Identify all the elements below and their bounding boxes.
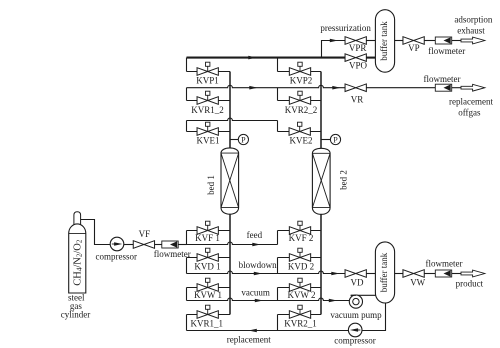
vacuum flow arrow xyxy=(255,299,263,303)
svg-text:buffer tank: buffer tank xyxy=(379,21,389,61)
KVW1 branch wire xyxy=(187,287,231,289)
valve KVP1 xyxy=(197,62,218,75)
svg-text:replacement: replacement xyxy=(227,335,271,345)
valve VPR xyxy=(345,37,366,45)
svg-text:KVR1_1: KVR1_1 xyxy=(191,318,224,328)
steel gas cylinder xyxy=(69,212,86,293)
valve KVW2 xyxy=(289,278,310,291)
valve KVP2 xyxy=(289,62,310,75)
replacement flow arrow (left) xyxy=(249,329,257,333)
offgas flowmeter xyxy=(435,84,451,91)
svg-text:pressurization: pressurization xyxy=(320,23,371,33)
svg-text:flowmeter: flowmeter xyxy=(424,74,461,84)
wire VD valve to product buffer tank xyxy=(366,273,375,275)
svg-text:bed 1: bed 1 xyxy=(206,175,216,195)
svg-text:KVR2_1: KVR2_1 xyxy=(284,318,317,328)
svg-text:KVF 2: KVF 2 xyxy=(289,233,314,243)
svg-text:KVP2: KVP2 xyxy=(290,75,313,85)
replacement offgas outlet arrow xyxy=(461,84,485,91)
product flowmeter xyxy=(435,270,451,277)
svg-text:exhaust: exhaust xyxy=(457,26,485,36)
svg-text:blowdown: blowdown xyxy=(239,260,277,270)
riser KVF1 wire xyxy=(186,231,188,245)
feed compressor xyxy=(110,237,124,251)
svg-text:KVE2: KVE2 xyxy=(290,136,313,146)
KVF1 branch wire xyxy=(187,230,231,232)
svg-text:VPR: VPR xyxy=(349,43,367,53)
wire VPR to buffer tank xyxy=(366,40,375,42)
riser KVE1 wire xyxy=(186,121,188,132)
upper buffer tank xyxy=(375,10,394,72)
vacuum manifold wire xyxy=(187,298,350,300)
lower buffer tank xyxy=(375,242,394,303)
valve KVF2 xyxy=(289,221,310,234)
svg-text:cylinder: cylinder xyxy=(61,310,91,320)
vacuum arrow before pump xyxy=(329,299,337,303)
equalization manifold wire xyxy=(187,118,278,120)
wire offgas flowmeter to outlet arrow xyxy=(452,87,461,89)
svg-text:replacement: replacement xyxy=(449,97,493,107)
KVR2_1 branch wire xyxy=(278,314,322,316)
valve KVR2_1 xyxy=(289,305,310,318)
adsorption exhaust outlet arrow xyxy=(461,37,485,44)
riser KVR2_1 wire xyxy=(277,315,279,331)
valve VP xyxy=(403,37,424,45)
adsorption bed 1 vessel xyxy=(221,148,239,214)
KVW2 branch wire xyxy=(278,287,322,289)
valve KVR1_2 xyxy=(197,91,218,104)
blowdown flow arrow xyxy=(254,272,262,276)
valve KVE2 xyxy=(289,122,310,135)
svg-text:vacuum pump: vacuum pump xyxy=(330,310,382,320)
KVP1 branch wire xyxy=(187,71,231,73)
VR arrow before valve xyxy=(332,86,340,90)
VR mid flow arrow xyxy=(249,86,257,90)
gauge stub bed 1 wire xyxy=(230,139,238,141)
KVF2 branch wire xyxy=(278,230,322,232)
svg-text:P: P xyxy=(333,136,338,145)
wire VW to product flowmeter xyxy=(424,273,435,275)
svg-text:feed: feed xyxy=(247,230,263,240)
wire compressor to tank bottom xyxy=(362,302,386,331)
riser KVW2 wire xyxy=(277,288,279,301)
svg-text:VW: VW xyxy=(410,278,425,288)
svg-text:flowmeter: flowmeter xyxy=(428,46,465,56)
svg-text:KVD 2: KVD 2 xyxy=(288,261,314,271)
valve VF xyxy=(133,241,154,249)
svg-text:product: product xyxy=(456,279,484,289)
feed flowmeter xyxy=(162,241,178,248)
svg-text:buffer tank: buffer tank xyxy=(379,252,389,292)
svg-text:flowmeter: flowmeter xyxy=(426,259,463,269)
pressure gauge P bed 1 xyxy=(238,134,248,144)
blowdown arrow before VD xyxy=(331,272,339,276)
pressurization manifold wire xyxy=(187,57,346,59)
wire product flowmeter to outlet arrow xyxy=(452,273,461,275)
wire VR valve to offgas flowmeter xyxy=(366,87,435,89)
riser KVP1 wire xyxy=(186,58,188,72)
svg-text:bed 2: bed 2 xyxy=(338,170,348,190)
valve VPO xyxy=(345,54,366,62)
KVD2 branch wire xyxy=(278,257,322,259)
wire VF valve to feed flowmeter xyxy=(155,244,163,246)
VPR inlet arrow xyxy=(330,39,338,43)
svg-text:CH4/N2/O2: CH4/N2/O2 xyxy=(72,239,83,286)
wire exhaust flowmeter to outlet arrow xyxy=(452,40,461,42)
svg-text:VD: VD xyxy=(351,278,364,288)
replacement compressor xyxy=(348,323,362,337)
riser KVD2 wire xyxy=(277,258,279,274)
KVR1_1 branch wire xyxy=(187,314,231,316)
svg-text:KVF 1: KVF 1 xyxy=(195,233,220,243)
riser KVW1 wire xyxy=(186,288,188,301)
riser KVR1_2 wire xyxy=(186,88,188,101)
wire VP to exhaust flowmeter xyxy=(424,40,435,42)
svg-text:flowmeter: flowmeter xyxy=(154,249,191,259)
svg-text:KVR1_2: KVR1_2 xyxy=(191,105,224,115)
svg-text:compressor: compressor xyxy=(334,336,376,346)
svg-text:compressor: compressor xyxy=(96,251,138,261)
valve VW xyxy=(403,270,424,278)
valve VR xyxy=(345,84,366,92)
svg-text:VF: VF xyxy=(139,229,151,239)
svg-text:offgas: offgas xyxy=(458,107,481,117)
riser KVP2 wire xyxy=(277,58,279,72)
svg-text:KVR2_2: KVR2_2 xyxy=(285,105,318,115)
KVD1 branch wire xyxy=(187,257,231,259)
svg-text:KVE1: KVE1 xyxy=(197,136,220,146)
vacuum pump xyxy=(349,295,362,308)
valve KVF1 xyxy=(197,221,218,234)
valve KVD1 xyxy=(197,248,218,261)
svg-text:KVD 1: KVD 1 xyxy=(194,261,220,271)
svg-text:P: P xyxy=(241,136,246,145)
exhaust flowmeter xyxy=(435,37,451,44)
valve KVD2 xyxy=(289,248,310,261)
adsorption bed 2 vessel xyxy=(312,148,330,214)
feed manifold wire xyxy=(187,242,278,244)
KVR1_2 branch wire xyxy=(187,100,231,102)
gauge stub bed 2 wire xyxy=(321,139,330,141)
pressurization flow arrow xyxy=(248,56,256,60)
wire tank to VP valve xyxy=(395,40,403,42)
svg-text:VP: VP xyxy=(408,43,420,53)
steel gas cylinder outlet wire xyxy=(80,220,110,245)
svg-text:vacuum: vacuum xyxy=(241,287,270,297)
pressure gauge P bed 2 xyxy=(330,134,340,144)
wire feed flowmeter to feed manifold xyxy=(178,244,187,246)
svg-text:KVW 2: KVW 2 xyxy=(287,290,315,300)
wire tank to VW valve xyxy=(395,273,403,275)
KVR2_2 branch wire xyxy=(278,100,322,102)
valve KVW1 xyxy=(197,278,218,291)
riser KVR2_2 wire xyxy=(277,88,279,101)
KVE2 branch wire xyxy=(278,131,322,133)
valve KVR2_2 xyxy=(289,91,310,104)
riser KVF2 wire xyxy=(277,231,279,245)
bed 1 pipe wire xyxy=(229,72,231,315)
vacuum pump outlet wire xyxy=(351,294,377,296)
valve KVR1_1 xyxy=(197,305,218,318)
valve VD xyxy=(345,270,366,278)
wire VPO to buffer tank xyxy=(366,57,375,59)
KVP2 branch wire xyxy=(278,71,322,73)
product outlet arrow xyxy=(461,270,485,277)
VPR branch riser wire xyxy=(322,41,346,58)
riser KVD1 wire xyxy=(186,258,188,274)
riser KVE2 wire xyxy=(277,121,279,132)
svg-text:VR: VR xyxy=(351,95,364,105)
riser KVR1_1 wire xyxy=(186,315,188,331)
valve KVE1 xyxy=(197,122,218,135)
blowdown manifold wire xyxy=(187,271,346,273)
svg-text:KVP1: KVP1 xyxy=(196,75,219,85)
wire compressor to VF valve xyxy=(124,244,133,246)
feed flow arrow xyxy=(252,243,260,247)
bed 2 pipe wire xyxy=(320,72,322,315)
KVE1 branch wire xyxy=(187,131,231,133)
VR manifold wire xyxy=(187,85,346,87)
svg-text:adsorption: adsorption xyxy=(454,14,492,24)
replacement manifold wire xyxy=(187,330,349,332)
svg-text:KVW 1: KVW 1 xyxy=(194,290,222,300)
svg-text:VPO: VPO xyxy=(349,61,368,71)
